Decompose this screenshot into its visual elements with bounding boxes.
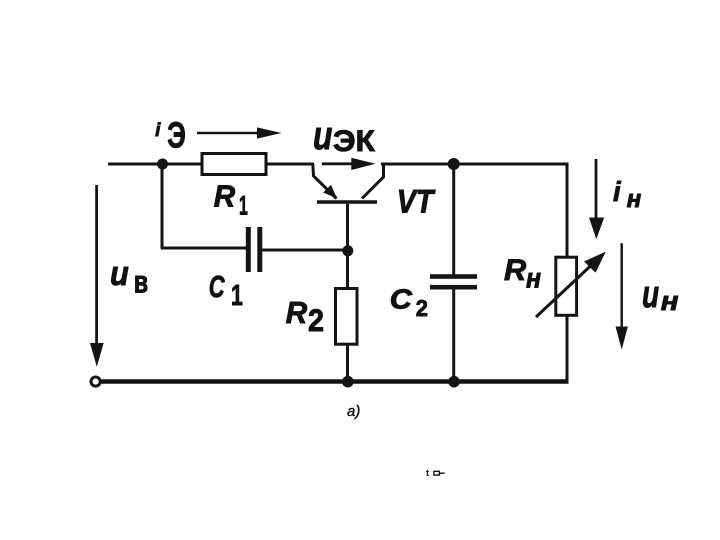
wire base node to R2 [346,251,349,289]
terminal circle bottom-left [91,377,100,386]
transistor VT base lead [346,204,349,251]
transistor VT emitter arrowhead [323,185,337,199]
svg-text:C: C [209,270,225,304]
svg-text:R: R [286,296,307,330]
node A junction dot (input node) [157,159,168,170]
node B junction dot (base node) [342,245,353,256]
node E junction dot (C2 bottom) [448,376,460,388]
wire bottom [102,379,569,384]
wire top-left segment [108,163,314,166]
wire C1 right plate to base node [262,249,349,252]
svg-text:а): а) [347,403,360,420]
svg-text:в: в [134,264,148,300]
resistor RH [556,257,577,315]
transistor VT emitter line [313,164,337,199]
wire C2 lower lead [452,289,455,382]
wire R2 to bottom [346,344,349,382]
wire node A drop to C1 [161,163,164,249]
label RH [504,254,541,294]
capacitor C1 [246,227,262,272]
svg-text:C: C [390,284,413,315]
node D junction dot (R2 bottom) [342,376,354,388]
svg-text:u: u [313,114,332,158]
transistor VT collector line [362,164,384,199]
arrow u-load [616,243,628,349]
svg-text:R: R [214,180,235,214]
resistor RH variability arrow [536,265,592,318]
label u-load [642,273,679,316]
svg-text:2: 2 [416,295,428,321]
resistor R2 [336,289,358,345]
svg-text:VT: VT [397,183,436,220]
transistor VT base bar [317,200,377,204]
svg-text:Э: Э [167,115,186,156]
svg-text:t: t [426,468,429,478]
label u-input [110,255,148,300]
label i-load [613,176,642,213]
node C junction dot (collector node / C2 top) [448,158,460,170]
label u-EK [313,114,376,158]
tiny t-box mark [426,468,445,478]
svg-text:2: 2 [308,302,324,338]
wire right branch upper [566,163,569,258]
svg-text:u: u [110,255,129,293]
resistor R1 [202,154,266,175]
svg-text:i: i [155,119,161,140]
capacitor C2 [430,274,477,289]
svg-text:i: i [613,176,622,207]
wire to C1 left plate [161,247,246,250]
svg-text:ЭК: ЭК [333,125,376,158]
svg-text:1: 1 [239,191,248,221]
arrow i-load [589,159,604,239]
arrow u-input (left) [90,185,104,367]
label C1 [209,270,243,312]
svg-text:н: н [661,286,679,316]
svg-text:1: 1 [231,280,243,312]
label R1 [214,180,248,221]
wire right branch lower [566,315,569,383]
label R2 [286,296,324,338]
svg-text:R: R [504,254,527,287]
wire C2 upper lead [452,164,455,275]
svg-text:н: н [526,263,541,294]
label i-emitter [155,115,186,156]
label C2 [390,284,428,322]
resistor RH arrowhead [584,252,606,273]
arrow i-emitter current [197,127,282,138]
arrow u-EK voltage [322,158,376,170]
svg-text:н: н [627,186,642,213]
svg-text:u: u [642,273,659,316]
wire top-right segment [381,163,568,166]
